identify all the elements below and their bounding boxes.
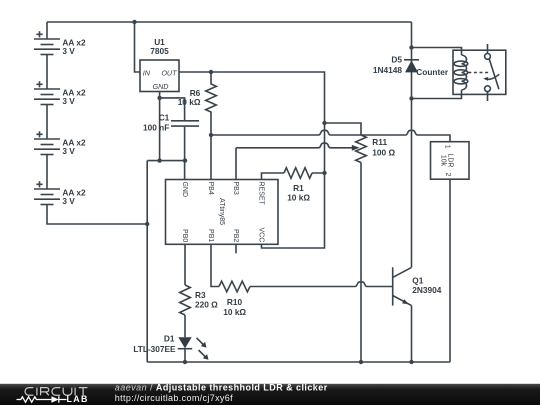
- svg-text:LTL-307EE: LTL-307EE: [133, 344, 176, 354]
- svg-text:10k: 10k: [439, 155, 446, 167]
- svg-text:R3: R3: [195, 290, 206, 300]
- svg-text:10 kΩ: 10 kΩ: [287, 193, 310, 203]
- svg-text:1N4148: 1N4148: [373, 65, 402, 75]
- svg-text:aaevan / Adjustable threshhold: aaevan / Adjustable threshhold LDR & cli…: [115, 383, 328, 393]
- node junction gnd left: [157, 158, 161, 162]
- battery V1 AA x2: [34, 31, 86, 56]
- svg-text:Counter: Counter: [416, 67, 449, 77]
- svg-text:3 V: 3 V: [62, 46, 75, 56]
- svg-text:1: 1: [444, 145, 451, 149]
- resistor R6 10 kOhm: [178, 72, 217, 135]
- FOOTER: [0, 383, 540, 405]
- wire PB4 net with hops: [211, 135, 450, 142]
- wire RESET to R1: [262, 173, 325, 180]
- node junction 5V pot feed: [322, 121, 326, 125]
- wire LED to ground rail: [184, 349, 186, 362]
- svg-text:R1: R1: [293, 183, 304, 193]
- IC U2 ATtiny85: [166, 180, 279, 245]
- svg-text:100 Ω: 100 Ω: [372, 148, 395, 158]
- svg-text:OUT: OUT: [161, 68, 177, 77]
- battery V4 AA x2: [34, 181, 86, 206]
- node junction relay bottom: [409, 96, 413, 100]
- wire PB3 to pot wiper with hop: [236, 148, 353, 180]
- wire U1 input: [135, 22, 141, 72]
- wire top rail: [47, 21, 412, 23]
- wire PB0 to R3: [184, 244, 186, 285]
- wire U1 GND to C1 and IC ground: [147, 92, 185, 180]
- wire 5V to pot top: [325, 123, 362, 135]
- capacitor C1 100 nF: [143, 112, 199, 132]
- node junction U1 input on top rail: [132, 20, 136, 24]
- logo resistor zigzag and diode: [17, 397, 52, 402]
- svg-text:GND: GND: [181, 182, 188, 198]
- transistor Q1 2N3904: [393, 267, 442, 305]
- wiper arrow of potentiometer: [352, 145, 360, 151]
- svg-text:PB4: PB4: [207, 182, 214, 195]
- wire battery chain verticals: [47, 22, 147, 224]
- wire left ground vertical: [146, 161, 148, 362]
- svg-text:GND: GND: [153, 82, 169, 91]
- svg-text:http://circuitlab.com/cj7xy6f: http://circuitlab.com/cj7xy6f: [115, 393, 233, 403]
- LED D1 LTL-307EE: [133, 334, 208, 360]
- wire PB4 pin stub: [210, 135, 212, 180]
- svg-text:LAB: LAB: [67, 394, 89, 404]
- node junction relay top: [409, 45, 413, 49]
- svg-text:VCC: VCC: [258, 228, 265, 243]
- svg-text:PB2: PB2: [232, 229, 239, 242]
- LDR R2 photoresistor box: [431, 142, 470, 180]
- relay Counter: [412, 44, 506, 101]
- wire Q1 emitter to ground rail: [411, 306, 413, 362]
- resistor R10 10 kOhm: [219, 281, 250, 317]
- svg-text:C1: C1: [159, 112, 170, 122]
- svg-text:RESET: RESET: [258, 182, 265, 206]
- wire R3 to LED D1: [184, 315, 186, 337]
- wire bottom ground rail: [147, 361, 450, 363]
- wire U1 output 5V rail: [179, 72, 325, 248]
- wire PB1 to R10: [211, 244, 219, 286]
- wire PB2 stub: [235, 244, 237, 253]
- diode D5 1N4148: [373, 55, 419, 76]
- node junction emitter ground: [409, 360, 413, 364]
- wire relay vertical with diode D5: [411, 22, 413, 267]
- battery V2 AA x2: [34, 81, 86, 106]
- svg-text:100 nF: 100 nF: [143, 122, 169, 132]
- svg-text:LDR: LDR: [447, 153, 454, 167]
- resistor R1 10 kOhm: [284, 168, 312, 203]
- logo CIRCUIT lettering: [25, 388, 87, 396]
- potentiometer R11 100 Ohm: [356, 135, 396, 162]
- svg-text:7805: 7805: [150, 46, 169, 56]
- svg-text:PB0: PB0: [181, 229, 188, 242]
- svg-text:D5: D5: [391, 55, 402, 65]
- svg-text:IN: IN: [143, 68, 151, 77]
- svg-text:10 kΩ: 10 kΩ: [223, 307, 246, 317]
- wire hop over relay vertical: [406, 130, 418, 135]
- node junction R1 right on 5V vertical: [322, 171, 326, 175]
- node junction pot ground: [359, 360, 363, 364]
- op-amp U1 7805 regulator box: [140, 37, 179, 91]
- wire hop over 5V vertical: [319, 130, 331, 135]
- svg-text:3 V: 3 V: [62, 196, 75, 206]
- node junction R6 bottom PB4: [209, 133, 213, 137]
- battery V3 AA x2: [34, 131, 86, 156]
- wire hop base over pot vertical: [355, 282, 367, 287]
- footer black bar: [0, 384, 540, 405]
- node junction R6 top: [209, 70, 213, 74]
- svg-text:R11: R11: [372, 137, 387, 147]
- wire LDR bottom to ground rail corner: [449, 179, 451, 362]
- resistor R3 220 Ohm: [180, 285, 218, 315]
- svg-text:2N3904: 2N3904: [412, 285, 441, 295]
- wire pot bottom to ground rail: [360, 163, 362, 363]
- wire hop PB3 over 5V vertical: [319, 143, 331, 148]
- svg-text:3 V: 3 V: [62, 96, 75, 106]
- svg-text:ATtiny85: ATtiny85: [218, 198, 225, 225]
- node junction gnd cap bottom: [183, 158, 187, 162]
- svg-text:PB1: PB1: [207, 229, 214, 242]
- node junction LED ground: [183, 360, 187, 364]
- svg-text:R10: R10: [227, 297, 243, 307]
- svg-text:220 Ω: 220 Ω: [195, 300, 218, 310]
- svg-text:2: 2: [444, 172, 451, 176]
- node junction U1 gnd: [157, 96, 161, 100]
- svg-text:D1: D1: [164, 334, 175, 344]
- node junction battery to ground column: [145, 222, 149, 226]
- svg-text:PB3: PB3: [232, 182, 239, 195]
- svg-text:3 V: 3 V: [62, 146, 75, 156]
- wire R10 to Q1 base with hop: [250, 286, 393, 288]
